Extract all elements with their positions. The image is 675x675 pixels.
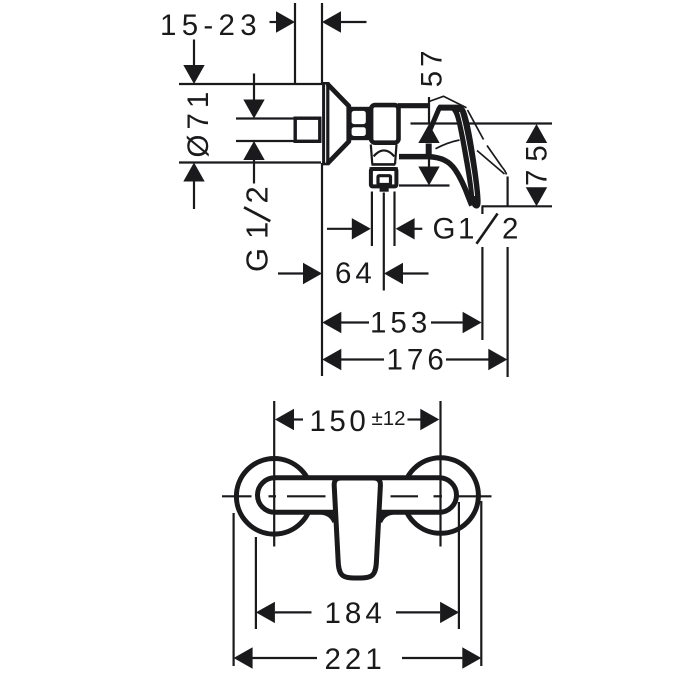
phantom tip extension line bbox=[507, 177, 509, 207]
arrows front view bbox=[234, 409, 482, 669]
dia71 arrows bbox=[183, 65, 204, 84]
57 arrows bbox=[418, 124, 439, 143]
G1/2 outlet arrows bbox=[352, 218, 371, 239]
texts front view bbox=[310, 405, 386, 675]
outlet extension lines bbox=[371, 192, 373, 247]
150 arrows bbox=[275, 409, 294, 430]
escutcheon cone outline bbox=[328, 84, 349, 164]
svg-text:1: 1 bbox=[458, 213, 474, 246]
184 extension lines bbox=[255, 537, 257, 629]
176 dim lines bbox=[341, 358, 384, 360]
valve body bbox=[371, 105, 398, 143]
top bar to handle bbox=[398, 103, 430, 108]
svg-text:184: 184 bbox=[325, 597, 386, 630]
15-23 dim line tails bbox=[270, 21, 278, 23]
lever white streak bbox=[460, 112, 475, 196]
svg-text:75: 75 bbox=[521, 137, 554, 186]
221 arrows bbox=[234, 647, 253, 668]
150 dim tails bbox=[294, 418, 304, 420]
lever handle band bbox=[437, 105, 480, 209]
221 extension lines bbox=[233, 513, 235, 666]
top view: wall reference line upper bbox=[321, 3, 323, 84]
153 arrows bbox=[322, 312, 341, 333]
slash of rotated G1/2 bbox=[244, 207, 270, 221]
bar-handle left fillet bbox=[322, 512, 335, 522]
svg-text:150: 150 bbox=[310, 405, 370, 438]
svg-text:G: G bbox=[433, 213, 456, 246]
svg-text:2: 2 bbox=[502, 213, 518, 246]
slash of outlet G1/2 bbox=[477, 214, 498, 244]
svg-text:221: 221 bbox=[325, 643, 386, 675]
G1/2 outlet dim tails bbox=[327, 228, 352, 230]
handle front bbox=[334, 478, 380, 578]
top view: extension line left of 15-23 bbox=[294, 3, 296, 84]
75 bottom reference line bbox=[482, 205, 553, 207]
body bar bbox=[258, 478, 457, 513]
handle head left edge bbox=[429, 108, 439, 132]
handle tip extension line bbox=[481, 207, 483, 215]
64 arrows bbox=[303, 263, 322, 284]
top view: wall reference line lower bbox=[321, 163, 323, 376]
svg-text:G: G bbox=[240, 244, 275, 272]
supply dim stems bbox=[253, 74, 255, 101]
phantom handle upper diagonal bbox=[468, 110, 484, 140]
svg-text:64: 64 bbox=[335, 257, 376, 290]
left escutcheon circle bbox=[236, 459, 312, 535]
svg-text:57: 57 bbox=[416, 46, 449, 87]
svg-text:±12: ±12 bbox=[372, 407, 406, 430]
phantom handle peak bbox=[429, 96, 467, 108]
phantom handle lower diagonal bbox=[477, 151, 505, 175]
dia71 bottom reference line bbox=[179, 161, 321, 163]
svg-text:153: 153 bbox=[370, 307, 431, 340]
supply G1/2 arrows bbox=[243, 100, 264, 119]
176 arrows bbox=[322, 349, 341, 370]
75 arrows bbox=[526, 124, 547, 143]
outlet stub bbox=[380, 187, 389, 192]
15-23 arrows bbox=[276, 11, 295, 32]
vertical centerline left port bbox=[273, 401, 275, 547]
fixture centerline bbox=[411, 122, 553, 124]
57 bottom reference line bbox=[399, 184, 450, 186]
supply square reference lines bbox=[236, 117, 295, 119]
phantom handle lower-left edge bbox=[436, 140, 460, 149]
221 dim lines bbox=[253, 657, 318, 659]
union block bbox=[348, 107, 370, 140]
bar-handle right fillet bbox=[380, 512, 393, 522]
dia71 dim stems bbox=[193, 40, 195, 67]
57 dim stems bbox=[428, 97, 430, 124]
153 dim lines bbox=[341, 321, 369, 323]
svg-text:2: 2 bbox=[240, 182, 275, 203]
cartridge section below body bbox=[371, 145, 397, 165]
vertical centerline right port bbox=[439, 401, 441, 547]
right escutcheon circle bbox=[403, 458, 479, 534]
184 arrows bbox=[256, 602, 275, 623]
label G1/2 supply rotated bbox=[240, 182, 275, 272]
svg-text:176: 176 bbox=[387, 344, 448, 377]
184 dim lines bbox=[275, 611, 312, 613]
outlet nut bbox=[370, 167, 398, 170]
svg-text:15-23: 15-23 bbox=[160, 9, 262, 42]
horizontal centerline segments bbox=[222, 495, 252, 497]
lower thick curve body to lever bbox=[399, 157, 472, 206]
escutcheon wall flange double line bbox=[322, 83, 325, 165]
svg-text:Ø71: Ø71 bbox=[182, 87, 215, 158]
64 dim tails bbox=[278, 272, 304, 274]
wall supply square bbox=[295, 118, 320, 141]
dia71 top reference line bbox=[179, 83, 322, 85]
